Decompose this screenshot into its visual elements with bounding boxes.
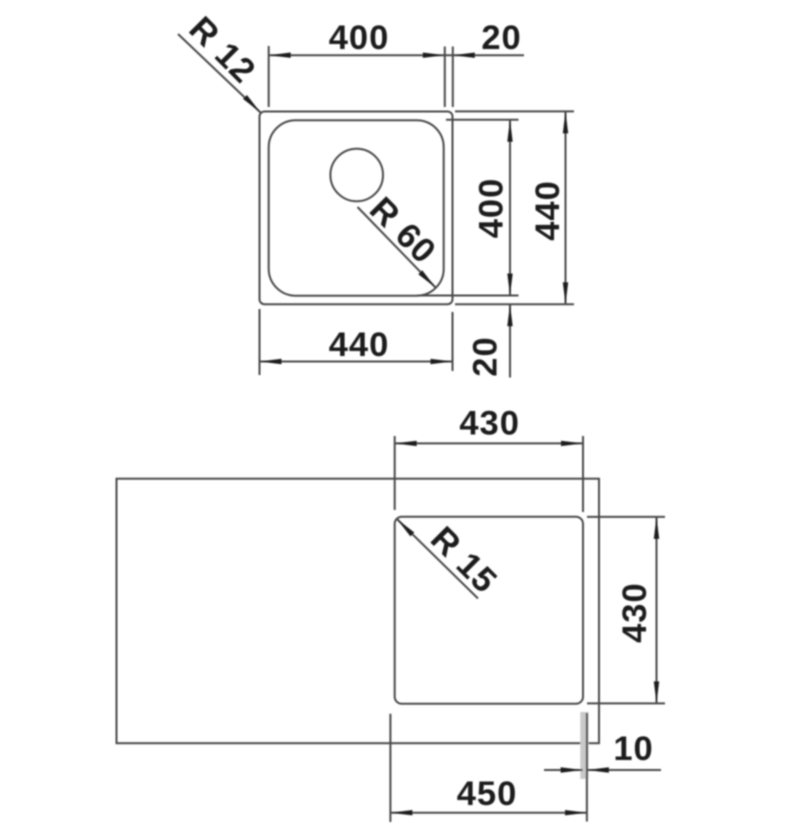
extension line cutout top right xyxy=(587,516,665,518)
arrow 430t left xyxy=(395,441,417,446)
dimension tail 20 right xyxy=(509,304,511,377)
arrow 430r up xyxy=(654,517,659,539)
arrow 400r down xyxy=(507,274,512,296)
arrow R60 xyxy=(418,270,436,288)
svg-text:20: 20 xyxy=(467,336,505,376)
countertop rectangle xyxy=(117,479,600,744)
svg-text:430: 430 xyxy=(616,582,654,643)
svg-text:20: 20 xyxy=(481,19,521,57)
dimension line 450 bottom xyxy=(390,812,587,814)
arrow 430t right xyxy=(561,441,583,446)
dimension line 440 bottom xyxy=(260,361,453,363)
svg-text:440: 440 xyxy=(329,326,390,364)
dimension tail 10 right xyxy=(587,769,661,771)
extension line rim top right xyxy=(455,110,574,112)
extension line rim right top xyxy=(452,47,454,108)
extension line sink right xyxy=(586,713,588,822)
dimension line 400 right xyxy=(509,120,511,296)
svg-text:10: 10 xyxy=(613,730,653,768)
svg-text:440: 440 xyxy=(529,180,567,241)
sink bowl 400x400 rounded R60 xyxy=(269,120,444,296)
extension line cutout right top xyxy=(582,436,584,512)
drain hole circle xyxy=(330,149,383,202)
extension line bowl left xyxy=(268,46,270,107)
extension line bowl bottom right xyxy=(417,295,519,297)
svg-text:400: 400 xyxy=(473,178,511,239)
arrow 440b left xyxy=(260,359,282,364)
svg-text:R 60: R 60 xyxy=(362,190,443,271)
extension line rim bottom right xyxy=(455,303,574,305)
arrow 20 outer xyxy=(453,53,475,58)
extension line rim right bottom xyxy=(452,312,454,371)
dimension line 430 top xyxy=(395,442,583,444)
arrow 400r up xyxy=(507,120,512,142)
arrow 10 left outer xyxy=(561,767,583,772)
cutout rectangle 430x430 R15 xyxy=(395,517,583,704)
extension line bowl right top xyxy=(444,47,446,108)
arrow 20r outer xyxy=(507,304,512,326)
svg-text:430: 430 xyxy=(459,405,520,443)
dimension tail 10 left xyxy=(544,769,583,771)
sink edge grey bar xyxy=(580,712,588,779)
dimension line 430 right xyxy=(656,517,658,704)
svg-text:400: 400 xyxy=(329,19,390,57)
arrow 440b right xyxy=(431,359,453,364)
extension line cutout bottom right xyxy=(587,702,665,704)
leader line R15 xyxy=(397,519,478,599)
arrow 450 right xyxy=(565,810,587,815)
arrow 440r up xyxy=(563,111,568,133)
extension line rim left bottom xyxy=(259,309,261,375)
leader line R60 xyxy=(358,207,436,288)
arrow 440r down xyxy=(563,282,568,304)
leader line R12 xyxy=(178,34,261,113)
arrow 400 left xyxy=(269,53,291,58)
extension line bowl top right xyxy=(446,119,519,121)
arrow 400 right xyxy=(423,53,445,58)
arrow 450 left xyxy=(390,810,412,815)
svg-text:R 15: R 15 xyxy=(423,520,504,601)
svg-text:450: 450 xyxy=(457,775,518,813)
arrow 430r down xyxy=(654,681,659,703)
dimension line 400/20 top xyxy=(269,54,524,56)
extension line sink left xyxy=(389,714,391,822)
extension line cutout left top xyxy=(394,436,396,510)
arrow 10 right outer xyxy=(587,767,609,772)
dimension line 440 right xyxy=(565,111,567,304)
sink outer rim rectangle 440x440 xyxy=(260,112,453,305)
arrow R12 xyxy=(243,95,261,113)
arrow R15 xyxy=(397,519,415,537)
